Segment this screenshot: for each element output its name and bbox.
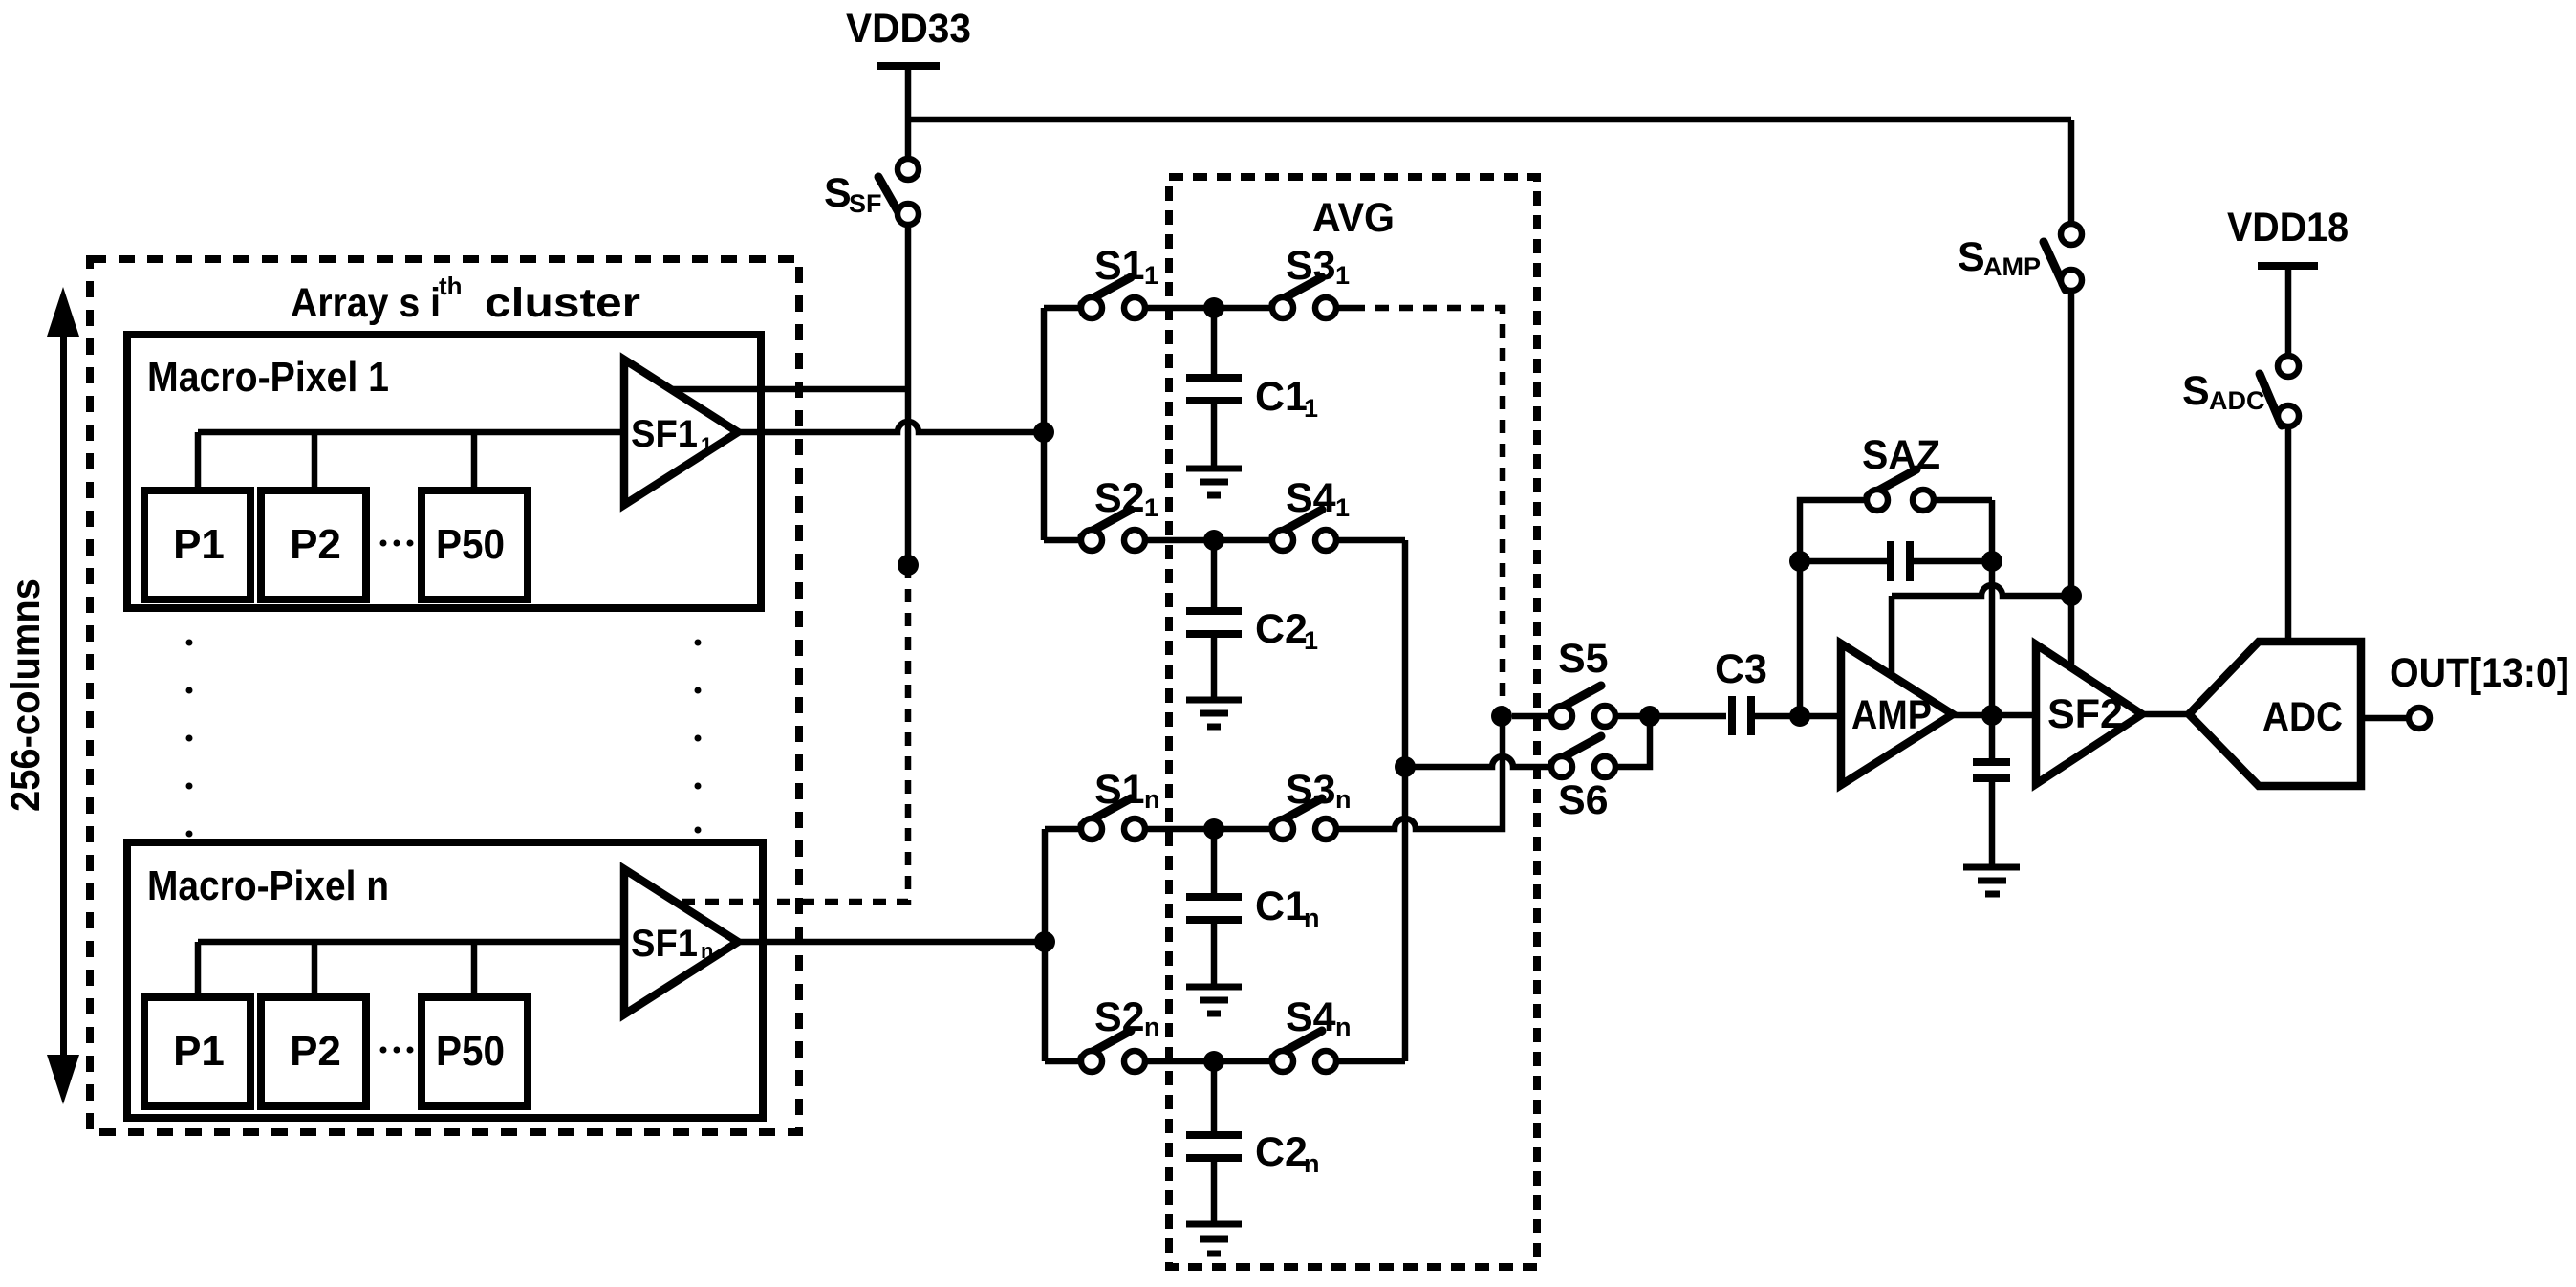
- svg-text:C2: C2: [1255, 606, 1308, 652]
- svg-text:S4: S4: [1286, 994, 1336, 1040]
- svg-text:SF1: SF1: [631, 923, 698, 965]
- capacitor feedback: [1891, 541, 1910, 581]
- wire AMP output: [1953, 712, 2036, 719]
- svg-text:AVG: AVG: [1312, 195, 1395, 241]
- wire S1_n to S3_n: [1144, 826, 1273, 833]
- svg-text:1: 1: [1335, 261, 1350, 290]
- node AMP input: [1789, 706, 1810, 727]
- wire node A vertical: [1041, 308, 1048, 540]
- ground C1_1: [1186, 469, 1242, 495]
- terminal OUT: [2409, 708, 2430, 729]
- wire S3_n to S5 with hop over x1470: [1335, 716, 1503, 829]
- svg-text:S2: S2: [1094, 475, 1145, 521]
- 256-columns double arrow: [60, 333, 67, 1059]
- svg-text:n: n: [1335, 785, 1352, 814]
- pixel P1 box (row n): [144, 997, 250, 1106]
- wire SF2 output: [2142, 711, 2189, 718]
- pixel P2 box: [261, 491, 366, 600]
- svg-text:S1: S1: [1094, 767, 1145, 813]
- wire to S1_1: [1044, 305, 1081, 312]
- wire S1_1 to S3_1: [1144, 305, 1273, 312]
- pixel P1 box: [144, 491, 250, 600]
- wire S4 vertical bus: [1402, 540, 1409, 1061]
- svg-text:ADC: ADC: [2262, 694, 2343, 740]
- svg-text:n: n: [701, 939, 713, 963]
- wire node S5 in: [1512, 713, 1551, 720]
- wire node B vertical: [1042, 829, 1049, 1061]
- svg-text:S: S: [2182, 368, 2210, 414]
- switch S_AMP: [2044, 242, 2066, 290]
- wire S_SF to column: [905, 225, 912, 565]
- dots vertical column right: [695, 640, 702, 646]
- svg-text:C1: C1: [1255, 374, 1308, 420]
- node C1_1: [1203, 297, 1224, 318]
- svg-text:S3: S3: [1286, 243, 1336, 289]
- dots ellipsis row n: [380, 1047, 387, 1054]
- wire C1_1 top: [1211, 308, 1218, 374]
- wire feedback left: [1800, 500, 1867, 716]
- svg-text:C2: C2: [1255, 1129, 1308, 1175]
- svg-text:S3: S3: [1286, 767, 1336, 813]
- wire pixel bus row n: [198, 942, 624, 997]
- cluster dashed box: [90, 259, 799, 1132]
- wire C2_1 top: [1211, 540, 1218, 607]
- wire output cap: [1989, 715, 1996, 758]
- switch SAZ: [1868, 469, 1916, 496]
- wire S6 in with hop over x1572: [1405, 756, 1551, 767]
- svg-text:Macro-Pixel 1: Macro-Pixel 1: [147, 354, 389, 401]
- pixel P50 box: [422, 491, 528, 600]
- pixel P50 box (row n): [422, 997, 528, 1106]
- svg-text:ADC: ADC: [2209, 386, 2265, 415]
- svg-text:SF1: SF1: [631, 413, 698, 455]
- wire SF1_1 output with hop over x950: [738, 422, 1044, 432]
- switch S2_n: [1082, 1031, 1131, 1058]
- node S_SF column: [898, 555, 919, 576]
- node C2_n: [1203, 1051, 1224, 1072]
- node C2_1: [1203, 530, 1224, 551]
- VDD33 bar: [877, 62, 940, 70]
- wire S_AMP upper: [2068, 120, 2075, 225]
- Macro-Pixel n box: [127, 842, 763, 1118]
- svg-text:Macro-Pixel n: Macro-Pixel n: [147, 862, 389, 909]
- dots vertical column left: [186, 640, 193, 646]
- capacitor C2_n: [1186, 1135, 1242, 1158]
- switch S1_1: [1082, 277, 1131, 304]
- wire VDD18 stem: [2285, 270, 2292, 357]
- svg-text:S5: S5: [1558, 636, 1609, 682]
- wire S3_1 dashed net to S5: [1352, 308, 1503, 712]
- node S5/S6 out: [1639, 706, 1660, 727]
- wire S5 out: [1615, 713, 1650, 720]
- switch S4_n: [1273, 1031, 1322, 1058]
- ground C1_n: [1186, 987, 1242, 1014]
- ADC block: [2189, 642, 2361, 786]
- switch S1_n: [1082, 798, 1131, 825]
- svg-text:1: 1: [1144, 261, 1158, 290]
- svg-text:n: n: [1304, 904, 1320, 932]
- svg-text:S2: S2: [1094, 994, 1145, 1040]
- wire SF1_n output: [738, 939, 1045, 946]
- svg-text:S: S: [1958, 234, 1985, 280]
- wire S6 out: [1615, 716, 1650, 767]
- switch S5: [1552, 686, 1601, 712]
- Macro-Pixel 1 box: [127, 335, 761, 608]
- VDD18 bar: [2258, 262, 2318, 270]
- svg-text:P50: P50: [436, 521, 505, 568]
- svg-text:P1: P1: [173, 1028, 225, 1075]
- node fb cap right: [1981, 551, 2002, 572]
- node C1_n: [1203, 818, 1224, 840]
- op-amp SF1_1: [624, 360, 738, 505]
- svg-text:256-columns: 256-columns: [3, 578, 49, 812]
- capacitor C1_n: [1186, 897, 1242, 920]
- node SF1_1 out: [1033, 422, 1054, 443]
- node S_AMP power: [2061, 585, 2082, 606]
- svg-text:P2: P2: [290, 521, 341, 568]
- svg-text:1: 1: [1304, 394, 1318, 423]
- wire to S1_n: [1045, 826, 1081, 833]
- wire S4_1 to bus: [1335, 537, 1405, 544]
- wire SF1_1 power: [670, 386, 908, 393]
- svg-text:n: n: [1144, 785, 1160, 814]
- op-amp SF1_n: [624, 869, 738, 1014]
- AVG dashed box: [1169, 177, 1537, 1267]
- wire pixel bus row1: [198, 432, 624, 491]
- svg-text:S6: S6: [1558, 777, 1609, 823]
- ground output cap: [1963, 867, 2020, 894]
- svg-text:C1: C1: [1255, 883, 1308, 929]
- node SF1_n out: [1034, 931, 1055, 952]
- svg-text:P1: P1: [173, 521, 225, 568]
- svg-text:VDD18: VDD18: [2227, 205, 2349, 251]
- svg-text:S: S: [824, 170, 852, 216]
- switch S2_1: [1082, 510, 1131, 536]
- wire feedback cap right: [1914, 558, 1992, 565]
- node fb cap left: [1789, 551, 1810, 572]
- wire AMP bias with hop over x2084: [1892, 585, 2071, 677]
- wire ADC out: [2361, 715, 2409, 722]
- capacitor C2_1: [1186, 611, 1242, 634]
- svg-text:P2: P2: [290, 1028, 341, 1075]
- wire S_AMP lower: [2068, 290, 2075, 596]
- wire C2_n top: [1211, 1061, 1218, 1131]
- svg-text:1: 1: [1304, 626, 1318, 655]
- wire S2_n to S4_n: [1144, 1058, 1273, 1065]
- svg-text:Array s i: Array s i: [291, 280, 441, 326]
- wire to C3: [1650, 713, 1726, 720]
- svg-text:SAZ: SAZ: [1862, 432, 1940, 478]
- switch S_SF: [878, 177, 902, 219]
- capacitor C1_1: [1186, 378, 1242, 401]
- svg-text:SF: SF: [849, 189, 882, 218]
- wire ADC power: [2285, 425, 2292, 642]
- svg-text:n: n: [1335, 1013, 1352, 1041]
- svg-text:VDD33: VDD33: [846, 6, 971, 52]
- node S5 input: [1491, 706, 1512, 727]
- op-amp AMP: [1841, 643, 1953, 785]
- wire dashed SF1_n power net: [674, 565, 908, 902]
- wire S2_1 to S4_1: [1144, 537, 1273, 544]
- wire C3 to AMP: [1753, 713, 1841, 720]
- svg-text:AMP: AMP: [1983, 252, 2041, 281]
- pixel P2 box (row n): [261, 997, 366, 1106]
- svg-text:AMP: AMP: [1851, 692, 1932, 738]
- wire to S2_1: [1044, 537, 1081, 544]
- wire VDD33 top rail: [908, 117, 2071, 123]
- node S6 input: [1395, 756, 1416, 777]
- switch S3_1: [1273, 277, 1322, 304]
- ground C2_n: [1186, 1224, 1242, 1254]
- svg-text:n: n: [1144, 1013, 1160, 1041]
- wire S3_1 right stub: [1335, 305, 1352, 312]
- svg-text:S1: S1: [1094, 243, 1145, 289]
- svg-text:S4: S4: [1286, 475, 1336, 521]
- svg-text:th: th: [439, 272, 463, 300]
- capacitor output: [1973, 762, 2010, 778]
- wire feedback cap left: [1800, 558, 1887, 565]
- wire SF2 power: [2068, 596, 2075, 670]
- svg-text:P50: P50: [436, 1028, 505, 1075]
- svg-text:cluster: cluster: [485, 280, 640, 326]
- wire to S2_n: [1045, 1058, 1081, 1065]
- switch S3_n: [1273, 798, 1322, 825]
- svg-text:1: 1: [1335, 493, 1350, 522]
- svg-text:OUT[13:0]: OUT[13:0]: [2390, 650, 2569, 696]
- svg-text:C3: C3: [1715, 646, 1767, 692]
- dots ellipsis row1: [380, 540, 387, 547]
- switch S6: [1552, 736, 1601, 763]
- wire C1_n top: [1211, 829, 1218, 893]
- wire S4_n to bus: [1335, 1058, 1405, 1065]
- node AMP output: [1981, 705, 2002, 726]
- op-amp SF2: [2036, 644, 2142, 784]
- switch S_ADC: [2260, 374, 2282, 425]
- switch S4_1: [1273, 510, 1322, 536]
- capacitor C3: [1732, 696, 1751, 735]
- wire feedback right: [1934, 500, 1992, 716]
- wire VDD33 stem: [905, 70, 912, 160]
- svg-text:1: 1: [701, 433, 712, 457]
- svg-text:n: n: [1304, 1149, 1320, 1178]
- ground C2_1: [1186, 700, 1242, 727]
- svg-text:1: 1: [1144, 493, 1158, 522]
- svg-text:SF2: SF2: [2047, 691, 2123, 737]
